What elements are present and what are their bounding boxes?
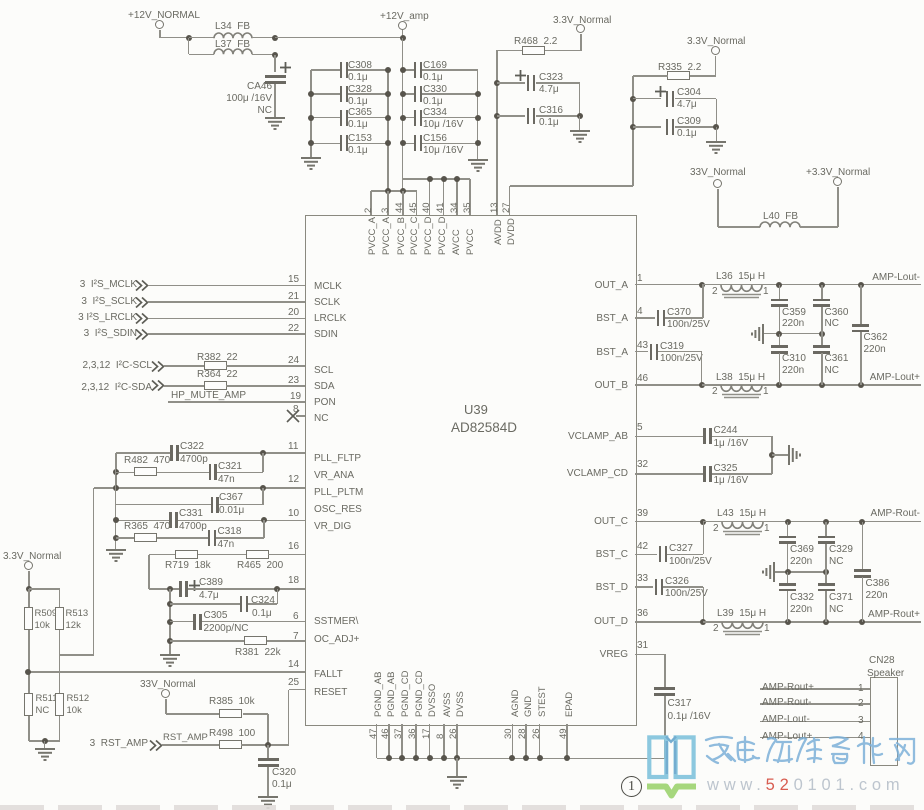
capacitor C305 [193, 614, 196, 630]
pin 7 wire [267, 640, 305, 642]
net label +12V_amp [380, 12, 429, 22]
pin label AVCC [452, 229, 462, 255]
pin 11 wire left [116, 452, 171, 454]
junction [699, 282, 705, 288]
pin number 34 [450, 202, 460, 213]
value C327 [669, 557, 712, 567]
capacitor C318 [208, 530, 211, 546]
pin label PON [314, 398, 336, 408]
pin label MCLK [314, 282, 342, 292]
value C319 [660, 354, 703, 364]
capacitor C156 [414, 135, 417, 151]
pin 7 wire left [170, 640, 246, 642]
wire C334 left [403, 117, 415, 119]
junction [167, 619, 173, 625]
label C370 [667, 308, 691, 318]
wire [189, 37, 214, 39]
junction C323 [494, 80, 500, 86]
wire [263, 520, 265, 538]
junction [859, 519, 865, 525]
label R482 470 [124, 456, 170, 466]
wire [252, 54, 275, 56]
capacitor C310 [771, 345, 788, 348]
wire CN28 pin 2 [760, 703, 870, 705]
ground VCLAMP [776, 444, 802, 466]
junction [167, 586, 173, 592]
pin label DVSSO [428, 684, 438, 717]
net arrow [135, 313, 149, 324]
net label 3 &nbsp;I&#178;S_SDIN [84, 329, 137, 339]
wire C330 left [403, 93, 415, 95]
wire C153 left [311, 143, 340, 145]
value C320 [272, 780, 292, 790]
wire [633, 98, 661, 100]
wire [60, 654, 94, 656]
wire [28, 571, 30, 590]
capacitor C359 [771, 299, 788, 302]
pin 30 wire [512, 724, 514, 758]
pin number 42 [637, 542, 648, 552]
wire cap-bank right ground bus [477, 70, 479, 159]
value C304 [677, 100, 697, 110]
wire [59, 630, 61, 693]
wire [862, 577, 864, 622]
resistor R382 [204, 361, 227, 370]
polarity + C389 [189, 580, 200, 591]
junction [272, 52, 278, 58]
pin 18 wire left [149, 588, 180, 590]
capacitor C331 [169, 512, 172, 528]
net label AMP-Rout+ [868, 610, 920, 620]
net label 33V_Normal [690, 168, 746, 178]
net label 3.3V_Normal 2 [687, 37, 745, 47]
pin 49 wire [566, 724, 568, 758]
resistor R365 [134, 533, 157, 542]
wire [536, 82, 580, 84]
pin 37 wire [401, 724, 403, 758]
junction [564, 755, 570, 761]
pin number 24 [288, 356, 299, 366]
wire C389 ground bus [169, 589, 171, 654]
pin 3 wire [387, 191, 389, 215]
capacitor C371 [818, 583, 835, 586]
pin 40 wire [429, 179, 431, 215]
inductor L43 [722, 522, 763, 540]
junction [441, 755, 447, 761]
pin 26 wire [539, 724, 541, 758]
net arrow [151, 361, 165, 372]
junction [274, 586, 280, 592]
wire [536, 115, 580, 117]
label NC [258, 106, 272, 116]
net label I2C-SDA [81, 383, 152, 393]
wire [787, 591, 789, 622]
label Speaker [867, 669, 904, 679]
pin number 17 [422, 728, 432, 739]
value C371 NC [829, 605, 843, 615]
pin 17 wire [429, 724, 431, 758]
pin label PGND_CD [415, 671, 425, 717]
pin label DVSS [456, 691, 466, 717]
ground C320 [257, 796, 279, 810]
junction L34/L37 right [272, 35, 278, 41]
junction [113, 485, 119, 491]
wire CN28 pin 4 [760, 737, 870, 739]
ground R511/R512 [34, 748, 56, 762]
wire [860, 332, 862, 385]
label C308 [348, 61, 372, 71]
pin 10 wire [178, 520, 306, 522]
junction C309 [630, 124, 636, 130]
pin 1 OUT_A wire [635, 284, 702, 286]
label C320 [272, 768, 296, 778]
wire [226, 365, 305, 367]
value C156 [423, 146, 463, 156]
label C361 [825, 354, 849, 364]
pin label OUT_C [594, 517, 628, 527]
pin label PVCC [466, 229, 476, 255]
value C305 [204, 624, 249, 634]
pin label OUT_D [594, 617, 628, 627]
value C331 [179, 522, 207, 532]
junction [454, 755, 460, 761]
pin label PVCC_A [382, 217, 392, 255]
capacitor C326 [655, 579, 658, 595]
watermark www.520101.com [707, 777, 904, 794]
pin 16 wire [268, 554, 305, 556]
value C316 [539, 118, 559, 128]
junction [400, 140, 406, 146]
pin 10 wire left [116, 520, 171, 522]
pin number 1 [637, 274, 643, 284]
pin number 12 [288, 475, 299, 485]
resistor R385 [219, 709, 242, 718]
wire [716, 127, 718, 141]
junction FALLT [25, 669, 31, 675]
inductor L39 [722, 622, 763, 640]
junction [537, 755, 543, 761]
wire [456, 758, 458, 776]
resistor R465 [246, 550, 269, 559]
pin number 44 [395, 202, 405, 213]
pin number 13 [490, 202, 500, 213]
net arrow [151, 380, 165, 391]
pin label OSC_RES [314, 505, 362, 515]
terminal +3.3V_Normal [833, 177, 842, 186]
pin label PVCC_D [424, 216, 434, 255]
wire [821, 307, 823, 334]
wire [165, 699, 167, 715]
junction [167, 638, 173, 644]
pin 42 wire [635, 554, 657, 556]
pin number 39 [637, 509, 648, 519]
wire CN28 pin 3 [760, 721, 870, 723]
wire [579, 83, 581, 116]
junction [454, 176, 460, 182]
value C322 [180, 455, 208, 465]
net label AMP-Rout- [871, 509, 920, 519]
pin 13 AVDD wire [496, 50, 498, 215]
net label AMP-Rout- [762, 698, 811, 708]
junction [859, 619, 865, 625]
wire [715, 56, 717, 76]
wire [166, 713, 219, 715]
label C304 [677, 88, 701, 98]
label C389 [199, 578, 223, 588]
pin label VREG [600, 650, 628, 660]
resistor R512 [55, 693, 64, 716]
junction [776, 282, 782, 288]
wire [267, 745, 269, 758]
label L34 FB [215, 22, 250, 32]
junction [523, 755, 529, 761]
pin 5 wire [635, 436, 704, 438]
pin label GND [524, 696, 534, 717]
terminal +12V_NORMAL [155, 20, 164, 29]
op-amp U39 AD82584D body [305, 215, 637, 726]
ground C316 [569, 130, 591, 144]
value R511 NC [36, 706, 50, 716]
pin 36 wire [415, 724, 417, 758]
pin number 25 [288, 678, 299, 688]
wire [665, 317, 703, 319]
label C309 [677, 117, 701, 127]
wire [116, 537, 135, 539]
pin 18 wire [188, 588, 306, 590]
junction pin3 [385, 188, 391, 194]
net arrow [135, 280, 149, 291]
value C318 [218, 540, 235, 550]
wire [716, 99, 718, 128]
pin number 6 [293, 612, 299, 622]
capacitor C389 [179, 581, 182, 597]
ground C309 [705, 141, 727, 155]
label C318 [218, 527, 242, 537]
net label AMP-Lout- [762, 715, 810, 725]
pin 6 wire left [170, 621, 194, 623]
junction [167, 601, 173, 607]
wire [262, 488, 264, 505]
net arrow [149, 740, 163, 751]
net label AMP-Lout- [872, 273, 920, 283]
pin number 37 [394, 728, 404, 739]
wire [188, 38, 190, 55]
resistor R381 [244, 636, 267, 645]
capacitor C332 [779, 583, 796, 586]
wire C308 right [348, 69, 388, 71]
wire AMP-Lout- rail [779, 284, 921, 286]
pin number 5 [637, 423, 643, 433]
pin 43 wire [635, 351, 648, 353]
capacitor C153 [340, 135, 343, 151]
value C325 [714, 476, 749, 486]
wire [787, 572, 789, 584]
wire bottom ground bus [377, 758, 665, 760]
pin 11 wire [179, 452, 306, 454]
wire [702, 284, 779, 286]
label C360 [825, 308, 849, 318]
pin 20 wire [148, 318, 305, 320]
label R719 18k [165, 561, 211, 571]
net label +3.3V_Normal [806, 168, 870, 178]
net label 3 &nbsp;I&#178;S_MCLK [80, 280, 137, 290]
pin number 23 [288, 376, 299, 386]
pin label OUT_A [595, 281, 628, 291]
value C362 [864, 345, 886, 355]
pin label DVDD [507, 218, 517, 245]
capacitor C317 plates [654, 687, 675, 690]
inductor L37 [214, 49, 252, 57]
pin number 3 [858, 716, 864, 726]
label C331 [179, 509, 203, 519]
wire C156 right [422, 143, 478, 145]
net label 3 I&#178;S_LRCLK [78, 313, 137, 323]
label C369 [790, 545, 814, 555]
ground mid rail CD [761, 561, 787, 583]
pin number 11 [288, 442, 298, 452]
junction [858, 282, 864, 288]
wire [712, 473, 772, 475]
label C371 [829, 593, 853, 603]
wire [633, 126, 661, 128]
value R513 [66, 621, 81, 631]
value C359 [782, 319, 804, 329]
value C361 NC [825, 366, 839, 376]
wire [825, 572, 827, 584]
wire mid rail CD [774, 571, 827, 573]
pin label AGND [511, 690, 521, 717]
wire [402, 30, 404, 38]
label L39 15uH [717, 609, 766, 619]
label C365 [348, 108, 372, 118]
capacitor C324 [240, 596, 243, 612]
wire [28, 716, 30, 741]
resistor R482 [134, 467, 157, 476]
capacitor C360 [813, 299, 830, 302]
pin 21 wire [148, 301, 305, 303]
label C319 [660, 342, 684, 352]
capacitor C309 [666, 119, 669, 135]
junction [819, 382, 825, 388]
pin label PLL_PLTM [314, 488, 363, 498]
junction [261, 517, 267, 523]
capacitor C325 [703, 466, 706, 482]
capacitor C362 [852, 324, 869, 327]
inductor pin 1 [764, 524, 770, 534]
pin 35 wire [469, 179, 471, 215]
wire [717, 189, 719, 228]
pin label LRCLK [314, 314, 346, 324]
wire [580, 34, 582, 51]
junction pin44 [400, 188, 406, 194]
wire [497, 115, 525, 117]
label CN28 [869, 656, 895, 666]
capacitor C367 [211, 497, 214, 513]
pin number 20 [288, 308, 299, 318]
wire C334 right [422, 117, 478, 119]
capacitor C322 [170, 445, 173, 461]
label R364 22 [197, 370, 238, 380]
pin label VR_DIG [314, 522, 351, 532]
wire AMP-Rout- rail [788, 521, 921, 523]
label C362 [864, 333, 888, 343]
wire [189, 54, 214, 56]
value C332 [790, 605, 812, 615]
pin number 22 [288, 324, 299, 334]
wire [243, 713, 268, 715]
capacitor C323 [527, 75, 530, 91]
ground PLL [105, 549, 127, 563]
label C325 [714, 464, 738, 474]
value C334 [423, 120, 463, 130]
pin 12 wire [94, 487, 306, 489]
wire C330 right [422, 93, 478, 95]
net label 3.3V_Normal left [3, 552, 61, 562]
wire [702, 384, 780, 386]
pin number 36 [637, 609, 648, 619]
pin 34 wire [456, 179, 458, 215]
pin 14 FALLT wire [28, 671, 305, 673]
wire [148, 555, 150, 589]
label AD82584D [451, 421, 517, 435]
junction [386, 755, 392, 761]
net label HP_MUTE_AMP [171, 391, 246, 401]
value C370 [667, 320, 710, 330]
label C359 [782, 308, 806, 318]
label C156 [423, 134, 447, 144]
wire [663, 586, 703, 588]
wire [59, 589, 61, 608]
value C308 [348, 73, 368, 83]
pin number 14 [288, 660, 299, 670]
pin number 32 [637, 460, 648, 470]
pin number 18 [288, 576, 299, 586]
junction [385, 67, 391, 73]
pin label OC_ADJ+ [314, 635, 359, 645]
resistor R498 [219, 740, 242, 749]
pin label AVDD [494, 219, 504, 245]
junction [699, 382, 705, 388]
wire [779, 285, 781, 300]
wire [160, 37, 189, 39]
resistor R364 [204, 381, 227, 390]
wire [115, 453, 117, 488]
junction [785, 619, 791, 625]
wire [402, 179, 404, 191]
label R468 2.2 [514, 37, 557, 47]
pin number 40 [422, 202, 432, 213]
pin number 21 [288, 292, 299, 302]
value C328 [348, 97, 368, 107]
label C330 [423, 85, 447, 95]
label C322 [180, 442, 204, 452]
label C328 [348, 85, 372, 95]
wire [59, 716, 61, 741]
inductor pin 2 [713, 524, 719, 534]
junction [385, 140, 391, 146]
inductor pin 2 [712, 387, 718, 397]
wire [116, 472, 134, 474]
pin number 26 [532, 728, 542, 739]
pin number 30 [504, 728, 514, 739]
junction [823, 519, 829, 525]
wire [267, 767, 269, 797]
value C386 [866, 591, 888, 601]
wire [664, 696, 666, 758]
inductor L36 [721, 285, 762, 303]
pin 47 wire [376, 724, 378, 758]
inductor L40 [760, 222, 800, 230]
